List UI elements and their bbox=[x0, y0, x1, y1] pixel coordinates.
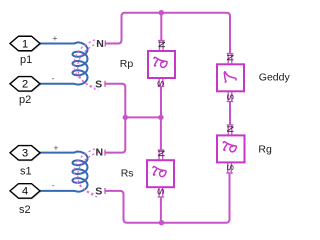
wire coil1-N to top bus to Geddy-N bbox=[105, 13, 230, 54]
magnetic core dashes coil1 bbox=[74, 40, 99, 91]
wire mid bus bbox=[125, 116, 161, 118]
reluctance block Rp bbox=[148, 51, 175, 78]
magnetic core dashes coil2 bbox=[74, 149, 99, 198]
port 2 (p2) bbox=[10, 77, 41, 93]
port stubs Rs S bbox=[159, 187, 163, 197]
svg-text:1: 1 bbox=[22, 38, 28, 50]
script-L icon of Geddy bbox=[224, 72, 236, 82]
port tick Geddy S bbox=[227, 101, 234, 103]
svg-text:S: S bbox=[155, 80, 166, 86]
port stubs Rs N bbox=[159, 150, 163, 160]
svg-text:N: N bbox=[96, 146, 104, 158]
port stubs Geddy N bbox=[228, 54, 232, 65]
port stubs Rp S bbox=[159, 78, 163, 87]
svg-text:+: + bbox=[53, 34, 58, 43]
svg-text:N: N bbox=[96, 38, 104, 50]
reluctance block Rg bbox=[217, 135, 245, 162]
svg-text:s2: s2 bbox=[19, 204, 31, 216]
svg-text:S: S bbox=[95, 79, 102, 91]
svg-text:N: N bbox=[224, 54, 235, 61]
junction top bbox=[159, 10, 164, 15]
svg-text:S: S bbox=[224, 164, 235, 170]
svg-text:p2: p2 bbox=[19, 94, 31, 106]
port tick coil2 N bbox=[104, 150, 106, 156]
svg-text:-: - bbox=[52, 74, 55, 83]
svg-text:p1: p1 bbox=[20, 54, 32, 66]
winding coil1 (primary) bbox=[40, 42, 88, 84]
svg-text:3: 3 bbox=[22, 148, 28, 160]
script-R icon of Rs bbox=[153, 166, 166, 176]
port tick Rg N bbox=[227, 124, 234, 126]
wire top junction down to Rp-N bbox=[160, 13, 162, 41]
script-R icon of Rp bbox=[154, 57, 167, 67]
port tick coil1 N bbox=[104, 41, 106, 47]
port tick Rp N bbox=[158, 40, 165, 42]
port stubs Rg S bbox=[228, 162, 232, 173]
port 1 (p1) bbox=[10, 36, 41, 52]
port tick coil1 S bbox=[104, 81, 106, 87]
port tick Rg S bbox=[226, 172, 233, 174]
wire coil2-S along bottom bus up to Rg-S bbox=[105, 173, 230, 223]
script-R icon of Rg bbox=[223, 142, 236, 152]
wire Geddy-S to Rg-N bbox=[229, 102, 231, 125]
svg-text:+: + bbox=[54, 143, 59, 152]
winding coil2 (secondary) bbox=[40, 152, 88, 192]
port 4 (s2) bbox=[10, 184, 41, 200]
port 3 (s1) bbox=[10, 146, 41, 162]
svg-text:Rs: Rs bbox=[121, 168, 134, 180]
port tick Geddy N bbox=[227, 53, 234, 55]
svg-text:2: 2 bbox=[22, 79, 28, 91]
port stubs Rp N bbox=[160, 41, 164, 51]
port stubs Rg N bbox=[228, 125, 232, 135]
port tick Rs N bbox=[158, 149, 165, 151]
wire Rp-S down to mid junction bbox=[160, 87, 162, 118]
svg-text:S: S bbox=[224, 94, 235, 100]
svg-text:-: - bbox=[52, 181, 55, 190]
wire mid junction to Rs-N bbox=[160, 117, 162, 150]
wire mid junction down to coil2-N bbox=[105, 117, 125, 152]
svg-text:4: 4 bbox=[22, 186, 28, 198]
port tick Rp S bbox=[158, 86, 165, 88]
svg-text:Geddy: Geddy bbox=[259, 72, 291, 84]
svg-text:S: S bbox=[155, 188, 166, 194]
svg-text:Rp: Rp bbox=[120, 58, 134, 70]
port tick Rs S bbox=[158, 196, 165, 198]
svg-text:s1: s1 bbox=[20, 166, 32, 178]
svg-text:Rg: Rg bbox=[258, 144, 272, 156]
wire coil1-S to mid junction bbox=[105, 84, 125, 118]
junction bottom bbox=[159, 220, 164, 225]
svg-text:N: N bbox=[155, 41, 166, 48]
svg-text:N: N bbox=[224, 126, 235, 133]
svg-text:N: N bbox=[155, 150, 166, 157]
port stubs Geddy S bbox=[228, 91, 232, 101]
junction mid-right bbox=[158, 115, 163, 120]
junction mid-left bbox=[123, 115, 128, 120]
eddy current block Geddy bbox=[217, 64, 244, 91]
reluctance block Rs bbox=[147, 160, 174, 187]
wire Rs-S down to bottom bus bbox=[160, 197, 162, 223]
svg-text:S: S bbox=[95, 186, 102, 198]
port tick coil2 S bbox=[104, 188, 106, 194]
